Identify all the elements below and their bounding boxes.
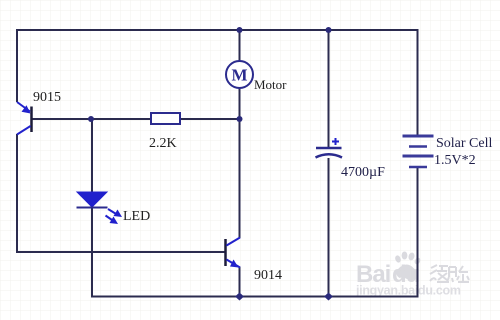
transistor Q2 9014 <box>226 238 241 268</box>
svg-text:Motor: Motor <box>254 77 287 92</box>
svg-text:Solar Cell: Solar Cell <box>436 136 492 151</box>
watermark Baidu logo <box>355 252 469 298</box>
node junction emitter/bottom <box>235 293 244 301</box>
node junction capacitor/bottom <box>324 293 333 301</box>
svg-text:jingyan.baidu.com: jingyan.baidu.com <box>355 284 461 298</box>
wire LED branch vertical <box>91 119 93 192</box>
svg-text:LED: LED <box>123 209 150 224</box>
transistor Q1 9015 <box>17 102 32 135</box>
wire motor top <box>239 29 241 61</box>
wire battery bottom <box>417 167 419 298</box>
wire node to 9014 collector <box>239 119 241 238</box>
wire bottom rail <box>91 296 419 298</box>
svg-text:4700µF: 4700µF <box>341 165 385 180</box>
capacitor C1 4700uF <box>316 138 343 158</box>
node junction base/LED <box>88 116 94 122</box>
svg-text:M: M <box>231 66 247 85</box>
wire 9014 emitter to bottom rail <box>239 267 241 298</box>
wire left vertical (to 9015 emitter) <box>16 29 18 102</box>
wire capacitor bottom <box>328 158 330 297</box>
node junction above capacitor <box>326 27 332 33</box>
svg-text:9015: 9015 <box>33 90 61 105</box>
LED D1 <box>77 192 123 224</box>
motor M1 <box>226 61 253 88</box>
node junction above motor <box>237 27 243 33</box>
wire left vertical (9015 collector down) <box>16 134 18 253</box>
wire 9015 base to resistor <box>33 118 151 120</box>
resistor R1 2.2K <box>151 113 180 124</box>
node junction resistor/motor <box>237 116 243 122</box>
svg-text:2.2K: 2.2K <box>149 136 177 151</box>
svg-text:1.5V*2: 1.5V*2 <box>434 153 476 168</box>
wire LED cathode down <box>91 208 93 298</box>
wire capacitor top <box>328 29 330 148</box>
wire battery top <box>417 29 419 136</box>
wire resistor to motor node <box>181 118 241 120</box>
battery B1 solar cell <box>403 136 434 167</box>
wire motor bottom to node <box>239 88 241 120</box>
wire top rail <box>17 29 418 31</box>
wire mid horizontal (collector to 9014 base) <box>16 251 225 253</box>
svg-text:9014: 9014 <box>254 268 282 283</box>
